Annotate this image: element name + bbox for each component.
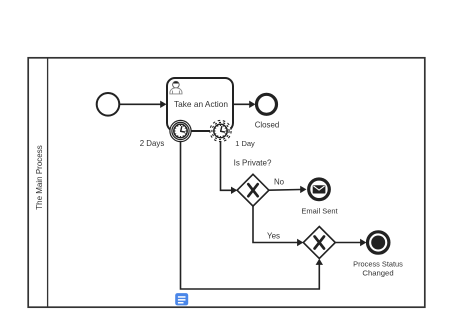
svg-text:No: No (274, 178, 285, 187)
label "Process Status Changed" (353, 260, 403, 278)
label "2 Days" (140, 139, 165, 148)
svg-text:Take an Action: Take an Action (174, 99, 228, 109)
wire: task to end event Closed (233, 101, 256, 108)
svg-text:Process Status: Process Status (353, 260, 403, 269)
label "Email Sent" (301, 207, 338, 216)
wire: gateway G1 down/right to gateway G2, label "Yes" (253, 206, 303, 246)
end event "Closed" (257, 94, 277, 114)
start event (97, 93, 120, 116)
svg-text:Email Sent: Email Sent (301, 207, 338, 216)
svg-text:Yes: Yes (267, 232, 280, 241)
svg-text:Closed: Closed (255, 120, 280, 129)
note/comment icon (blue) (175, 293, 188, 305)
label "1 Day" (235, 139, 255, 148)
boundary timer event T1 (interrupting, "2 Days") (170, 120, 191, 141)
gateway G2 (exclusive XOR merge) (303, 227, 335, 259)
wire: gateway G2 to terminate event (335, 239, 366, 246)
label "Is Private?" (234, 159, 272, 168)
user icon on task (170, 81, 182, 94)
end event "Email Sent" (message) (309, 179, 330, 200)
task "Take an Action" (user task U1) (167, 78, 233, 131)
wire: timer T2 down to gateway G1 (221, 142, 238, 194)
wire: timer T1 down along bottom up into gateway G2 (181, 142, 324, 289)
label "Closed" (255, 120, 280, 129)
svg-text:1 Day: 1 Day (235, 139, 255, 148)
svg-text:Changed: Changed (362, 269, 393, 278)
terminate end event "Process Status Changed" (368, 232, 389, 253)
pool "The Main Process" (28, 58, 425, 307)
svg-text:2 Days: 2 Days (140, 139, 165, 148)
svg-text:Is Private?: Is Private? (234, 159, 272, 168)
wire: start event to task (120, 101, 167, 108)
boundary timer event T2 (non-interrupting, "1 Day") (210, 120, 231, 141)
wire: gateway G1 to Email Sent, label "No" (269, 178, 307, 194)
svg-text:The Main Process: The Main Process (35, 145, 44, 209)
gateway G1 (exclusive XOR "Is Private?") (237, 174, 269, 206)
